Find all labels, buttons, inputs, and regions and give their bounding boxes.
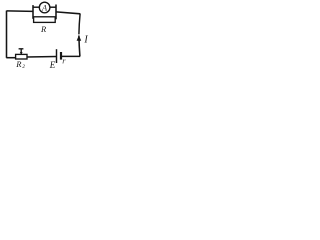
wire: stub from ammeter to right bar [50, 6, 56, 8]
svg-text:E: E [49, 60, 56, 70]
node bar: right junction of parallel branch [55, 5, 57, 20]
battery: long thin positive plate [56, 49, 58, 63]
current direction arrow on right wire [77, 35, 82, 41]
wire: stub from left bar to ammeter [33, 6, 39, 8]
rheostat R2: rectangle body [16, 54, 27, 59]
wire: bottom middle segment between battery and rheostat [27, 56, 57, 59]
wire: right vertical segment lower part [79, 36, 80, 57]
wire: top-right horizontal segment [56, 12, 80, 14]
rheostat R2: slider arrowhead [20, 52, 23, 55]
wire: top-left horizontal segment [7, 10, 34, 13]
svg-text:I: I [83, 34, 88, 45]
wire: bottom-right horizontal segment [62, 55, 80, 57]
ammeter A: meter circle [39, 2, 50, 13]
wire: left vertical segment [6, 11, 8, 58]
svg-text:R: R [40, 24, 47, 34]
svg-text:R: R [15, 59, 22, 69]
wire: right vertical segment upper part [79, 14, 80, 35]
node bar: left junction of parallel branch [32, 5, 34, 19]
resistor R: rectangle body [34, 17, 56, 23]
svg-text:2: 2 [22, 64, 25, 70]
battery: short thick negative plate [60, 52, 62, 60]
wire: bottom-left horizontal segment [6, 57, 15, 59]
svg-text:A: A [41, 3, 47, 12]
rheostat R2: slider arm with T-top [19, 49, 24, 55]
